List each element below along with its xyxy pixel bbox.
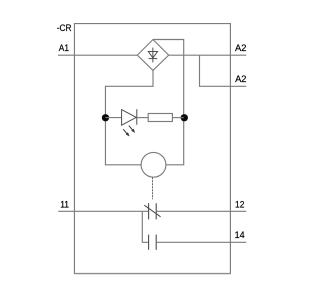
- relay coil: [141, 152, 166, 177]
- wire resistor to right junction: [172, 117, 183, 119]
- svg-text:12: 12: [235, 199, 244, 210]
- svg-text:11: 11: [60, 199, 69, 210]
- svg-text:A2: A2: [235, 73, 246, 84]
- label -CR: [57, 22, 72, 33]
- resistor: [148, 114, 172, 122]
- svg-text:-CR: -CR: [57, 22, 72, 33]
- terminal label A2 (second): [235, 73, 246, 84]
- terminal label 11: [60, 199, 69, 210]
- terminal label 14: [235, 229, 245, 240]
- node left junction: [102, 114, 109, 121]
- wire bridge right vertex to terminal A2 (top): [169, 54, 247, 56]
- wire NC contact to terminal 12: [156, 210, 246, 212]
- diode inside bridge: [148, 48, 157, 63]
- mechanical link coil to contact: [152, 177, 154, 199]
- LED light arrow 2: [123, 129, 129, 136]
- wire LED cathode to resistor: [137, 117, 148, 119]
- terminal label 12: [235, 199, 244, 210]
- svg-text:14: 14: [235, 229, 245, 240]
- wire NO contact to terminal 14: [156, 241, 246, 243]
- wire branch to terminal A2 (second): [200, 55, 247, 86]
- bridge rectifier diamond: [137, 40, 168, 71]
- terminal label A2 (top): [235, 42, 246, 53]
- relay -CR enclosure: [74, 24, 231, 274]
- NO contact 11-14: [149, 235, 157, 250]
- wire branch 11 to NO contact: [142, 211, 148, 242]
- wire left junction to LED anode: [106, 117, 122, 119]
- wire bridge top vertex to right junction: [153, 40, 184, 165]
- NC contact 11-12: [144, 203, 160, 219]
- svg-text:A2: A2: [235, 42, 246, 53]
- wire terminal 11 to NC contact: [58, 210, 148, 212]
- LED indicator: [122, 109, 137, 125]
- svg-text:A1: A1: [59, 42, 69, 53]
- node right junction: [181, 114, 188, 121]
- wire A1 to bridge left vertex: [58, 54, 137, 56]
- wire bridge bottom vertex to left junction: [105, 70, 153, 164]
- LED light arrow 1: [129, 126, 135, 133]
- terminal label A1: [59, 42, 69, 53]
